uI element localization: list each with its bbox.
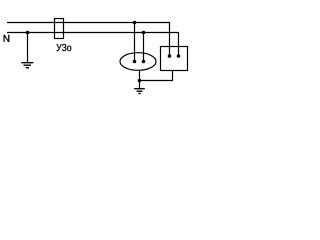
wire from PE node down to right ground xyxy=(139,81,141,89)
wire L line (top phase line with corner down to socket box) xyxy=(7,23,170,57)
wire from N line down into socket X1 xyxy=(143,33,145,62)
pin dot X2 right xyxy=(177,54,181,58)
node junction on L line feeding socket X1 xyxy=(133,21,137,25)
node junction on N line feeding socket X1 xyxy=(142,31,146,35)
wire from socket X2 bottom down to PE wire xyxy=(172,71,174,82)
pin dot X2 left xyxy=(168,54,172,58)
wire from N line down to left ground xyxy=(27,33,29,63)
wire N line (with corner down to socket box) xyxy=(7,33,179,57)
wire from socket X1 bottom down to PE node xyxy=(139,70,141,81)
pin dot X1 left xyxy=(133,60,137,64)
socket X2 (box outlet, square) xyxy=(161,47,188,71)
node PE junction xyxy=(138,79,142,83)
ground (right earth symbol) xyxy=(134,89,145,94)
value label УЗо xyxy=(56,44,71,51)
wire PE horizontal from node to below X2 xyxy=(140,80,173,82)
pin dot X1 right xyxy=(142,60,146,64)
ground (left earth symbol) xyxy=(21,63,33,68)
label N xyxy=(4,35,10,42)
wire from L line down into socket X1 xyxy=(134,23,136,62)
RCD device U1 (УЗО rectangle across both lines) xyxy=(55,19,64,39)
node junction on N line (left, to ground) xyxy=(26,31,30,35)
socket X1 (round outlet, ellipse) xyxy=(120,53,156,71)
